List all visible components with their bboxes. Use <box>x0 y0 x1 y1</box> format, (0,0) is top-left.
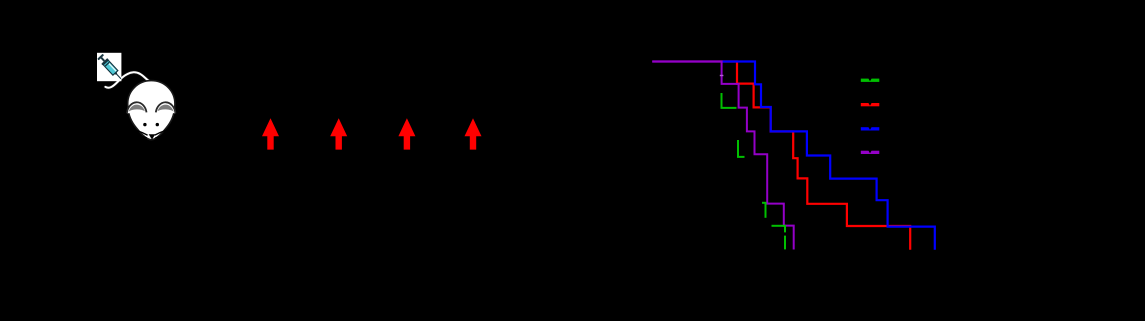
syringe box <box>97 53 121 81</box>
purple censor tick <box>720 75 724 76</box>
mouse right ear <box>156 102 176 113</box>
legend dash purple <box>861 150 880 154</box>
KM curve blue <box>652 62 934 250</box>
mouse body <box>128 81 175 140</box>
syringe U1 <box>97 53 124 81</box>
mouse whiskers <box>136 130 166 138</box>
legend dash red <box>861 103 880 107</box>
dosing arrow 4 <box>465 118 482 149</box>
KM curve purple <box>652 62 794 250</box>
plunger rod <box>101 57 105 62</box>
dosing arrow 2 <box>330 118 347 149</box>
KM curve green (visible segments) <box>722 93 786 249</box>
barrel piston <box>105 62 110 67</box>
mouse nose <box>149 134 156 139</box>
barrel <box>103 60 118 75</box>
plunger thumb pad <box>97 54 104 61</box>
KM curve red <box>652 62 910 250</box>
legend dash blue <box>861 127 880 131</box>
mouse tail <box>105 72 151 87</box>
needle <box>116 74 121 79</box>
barrel back flange <box>101 58 109 65</box>
mouse eyes <box>143 123 146 126</box>
dosing arrow 1 <box>262 118 279 149</box>
barrel nozzle <box>114 72 118 76</box>
barrel highlight <box>109 63 117 71</box>
dosing arrow 3 <box>398 118 415 149</box>
mouse left ear <box>127 102 147 113</box>
legend dash green <box>861 78 880 82</box>
